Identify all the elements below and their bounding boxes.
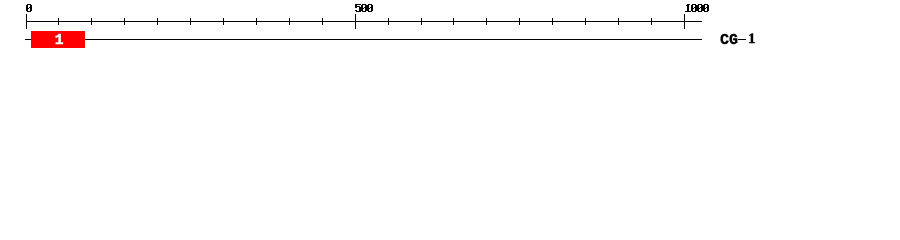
track label CG (720, 36, 738, 46)
minor tick 300 (223, 18, 224, 25)
track label 1 (748, 34, 756, 44)
feature connector line (25, 39, 702, 40)
ruler label 1000 (0, 0, 900, 58)
minor tick 900 (618, 18, 619, 25)
track label dash (738, 39, 746, 40)
feature box exon 1 (31, 31, 85, 48)
feature box label 1 (55, 36, 64, 46)
minor tick 350 (256, 18, 257, 25)
ruler label 500 (0, 0, 900, 58)
minor tick 50 (58, 18, 59, 25)
minor tick 200 (157, 18, 158, 25)
major tick 0 (26, 14, 27, 29)
minor tick 800 (552, 18, 553, 25)
minor tick 650 (453, 18, 454, 25)
minor tick 600 (421, 18, 422, 25)
minor tick 850 (585, 18, 586, 25)
major tick 1000 (684, 14, 685, 29)
minor tick 150 (124, 18, 125, 25)
minor tick 750 (519, 18, 520, 25)
minor tick 100 (91, 18, 92, 25)
ruler label 0 (0, 0, 900, 58)
minor tick 250 (190, 18, 191, 25)
minor tick 400 (289, 18, 290, 25)
minor tick 950 (651, 18, 652, 25)
ruler baseline (26, 21, 702, 22)
minor tick 450 (322, 18, 323, 25)
minor tick 700 (486, 18, 487, 25)
major tick 500 (355, 14, 356, 29)
minor tick 550 (388, 18, 389, 25)
